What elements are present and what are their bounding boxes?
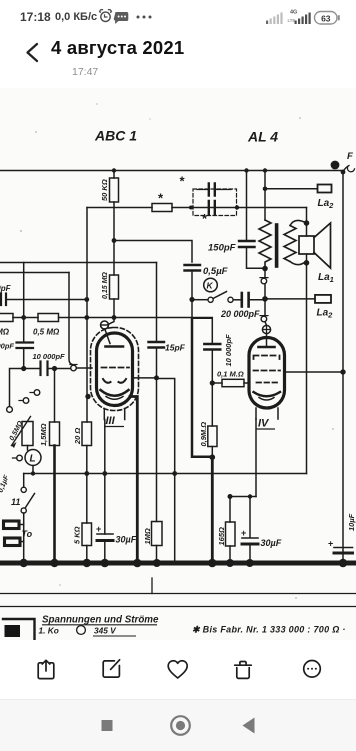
tube III shield (dashed) <box>91 328 139 411</box>
wire grid node to 1MΩ <box>156 378 158 522</box>
wire 0,9MΩ top lead <box>211 383 213 426</box>
edit icon <box>103 661 119 677</box>
tube IV envelope <box>249 338 285 409</box>
plug connector anode 1 <box>260 278 268 284</box>
svg-text:+: + <box>96 524 101 534</box>
header <box>0 38 60 68</box>
svg-text:11: 11 <box>11 497 20 507</box>
svg-text:30µF: 30µF <box>116 535 137 545</box>
junction heater/x105 <box>102 471 107 476</box>
trash icon <box>235 662 252 666</box>
svg-text:✱ Bis Fabr. Nr. 1 333 000 : 70: ✱ Bis Fabr. Nr. 1 333 000 : 700 Ω · <box>192 625 346 635</box>
scan speck <box>35 131 37 133</box>
junction bus 30µF1 <box>101 559 110 568</box>
navbar <box>0 699 356 751</box>
resistor 0,15 MΩ <box>110 275 119 299</box>
svg-text:L: L <box>30 454 36 465</box>
speaker La1 driver <box>299 236 314 254</box>
capacitor 10 000pF (coupling) <box>204 344 220 350</box>
junction bus cathode III <box>133 559 142 568</box>
trimmer capacitor upper <box>197 184 231 196</box>
underline table title <box>42 624 157 626</box>
node F antenna terminal <box>331 161 355 172</box>
junction AVC x24 <box>21 315 26 320</box>
tube III envelope <box>97 333 133 406</box>
junction bus 1M <box>153 559 161 567</box>
svg-text:ABC 1: ABC 1 <box>94 128 137 144</box>
wire tube III grid right <box>133 377 157 379</box>
capacitor 20000pF <box>242 293 249 307</box>
resistor 1 MΩ <box>152 522 163 546</box>
transformer secondary coil <box>284 226 296 262</box>
terminal To upper <box>4 521 20 529</box>
junction bus 10µF <box>339 559 348 568</box>
capacitor 150pF <box>239 241 255 247</box>
tube III heater arc inner <box>106 397 123 400</box>
wire cathode-chain vertical x=87 <box>86 208 88 423</box>
underline tube IV <box>257 428 276 430</box>
svg-text:5 ΚΩ: 5 ΚΩ <box>73 526 82 544</box>
svg-text:K: K <box>207 281 214 291</box>
wire 30µF(2) to bus <box>249 544 251 561</box>
wire switch node down <box>191 300 193 319</box>
junction bus To <box>20 559 28 567</box>
svg-text:F: F <box>347 151 353 162</box>
wire 1MΩ to bus <box>156 546 158 562</box>
wire 50k top lead <box>113 171 115 179</box>
junction switch node <box>189 297 194 302</box>
junction rail/150pF <box>244 168 248 172</box>
terminal To lower <box>5 538 21 546</box>
status bar <box>20 10 51 24</box>
tube III top-cap terminal <box>101 321 109 329</box>
junction rail/primary <box>263 168 267 172</box>
wire tap line y=272 <box>0 272 69 274</box>
wire elbow to tube III top cap <box>108 318 114 325</box>
toolbar <box>0 645 356 690</box>
junction antenna row 1 <box>189 206 193 210</box>
svg-text:AL 4: AL 4 <box>247 129 278 145</box>
scan speck <box>96 103 98 105</box>
tube IV anode lead <box>266 334 268 347</box>
tube IV grid 1 <box>254 356 280 360</box>
lamp La2 (lower) <box>315 295 331 303</box>
wire primary bottom to anode node <box>264 269 266 317</box>
junction bus 30µF2 <box>246 559 254 567</box>
wire HT top rail <box>0 170 343 172</box>
pin connector <box>7 407 13 413</box>
svg-text:150pF: 150pF <box>208 243 236 254</box>
junction secondary bottom <box>304 260 310 266</box>
battery pill <box>315 12 338 25</box>
wire 20Ω to 5kΩ <box>86 446 88 524</box>
tube III base pins <box>104 409 124 420</box>
wire junction to plug <box>55 368 71 370</box>
junction La2 feed <box>263 187 268 192</box>
svg-text:10 000pF: 10 000pF <box>224 334 233 367</box>
wire 0,9MΩ bottom lead <box>211 447 213 458</box>
wire cap to junction <box>48 368 55 370</box>
wire grid line y=317 <box>59 317 213 319</box>
transformer primary coil <box>259 220 271 268</box>
wire node elbow left <box>10 369 24 407</box>
wire switch to bus <box>23 513 25 561</box>
tube III anode lead <box>105 329 110 344</box>
wire tube III heater left down <box>104 420 106 535</box>
junction rail/50k <box>112 168 116 172</box>
junction 0,15M bottom <box>112 315 117 320</box>
resistor 0,9 MΩ <box>208 426 217 447</box>
switch K label circle <box>204 278 218 292</box>
wire antenna row right <box>172 207 307 209</box>
svg-text:5000pF: 5000pF <box>0 342 14 351</box>
wire antenna row left <box>87 207 152 209</box>
resistor 5 KΩ <box>82 523 92 546</box>
svg-text:4G: 4G <box>290 10 297 16</box>
resistor 20 Ω <box>82 422 92 446</box>
wire grid node right drop <box>157 379 175 562</box>
junction antenna row 2 <box>235 205 239 209</box>
tube IV top-cap terminal <box>262 325 270 333</box>
wire primary top feed <box>264 171 266 221</box>
capacitor 30µF (2) <box>242 538 258 544</box>
wire tube IV heater down <box>255 419 257 497</box>
wire grid cap to node <box>6 299 87 301</box>
schematic photo <box>0 88 356 640</box>
transformer core <box>275 225 279 266</box>
tube IV cathode arc <box>254 392 281 396</box>
wire 165Ω drop <box>229 497 231 523</box>
tube III heater arc <box>101 390 129 396</box>
wire speaker return drop <box>306 263 308 474</box>
junction IV right rail <box>340 369 345 374</box>
wire secondary bottom hook <box>290 262 304 265</box>
wire to tube IV top cap <box>265 322 267 325</box>
wire cap to switch node <box>191 271 193 300</box>
chat icon <box>114 12 129 24</box>
wire 150pF to primary bottom <box>247 247 266 268</box>
plug connector a <box>30 390 40 396</box>
junction secondary top <box>304 220 310 226</box>
svg-text:III: III <box>106 415 116 427</box>
capacitor 500pF (edge) <box>1 294 6 306</box>
table cell black <box>5 625 21 637</box>
junction coupling node <box>210 380 215 385</box>
speaker La1 cone <box>314 223 331 268</box>
junction bus x212 <box>208 559 217 568</box>
resistor * (antenna series) <box>152 204 172 212</box>
wire tube IV cathode to right rail <box>285 371 344 373</box>
wire thick to bus x=212 <box>211 457 214 561</box>
scan speck <box>149 118 151 120</box>
junction heater/lamp <box>31 471 35 475</box>
wire lamp to heater line <box>32 466 34 474</box>
junction anode node <box>262 296 268 302</box>
frame stub <box>151 578 153 594</box>
wire 165Ω to bus <box>229 546 231 561</box>
plug connector b <box>19 398 29 404</box>
svg-text:50 KΩ: 50 KΩ <box>100 179 109 201</box>
svg-text:To: To <box>22 529 33 539</box>
svg-text:20 Ω: 20 Ω <box>73 428 82 445</box>
wire secondary top hook <box>290 220 305 225</box>
junction primary bottom <box>262 266 268 272</box>
svg-text:1 ΜΩ: 1 ΜΩ <box>0 328 10 337</box>
underline tube III <box>104 426 124 428</box>
wire tube III cathode thick <box>130 397 137 562</box>
wire to pilot lamp La2 top <box>265 188 318 190</box>
tube III anode bar <box>106 345 124 348</box>
table border <box>3 619 35 640</box>
more icon <box>304 661 321 678</box>
capacitor 30µF (1) <box>97 534 113 541</box>
svg-text:0,1 Μ.Ω: 0,1 Μ.Ω <box>217 370 244 379</box>
svg-text:+: + <box>328 539 333 549</box>
capacitor 15pF <box>149 342 165 348</box>
svg-text:10µF: 10µF <box>347 513 356 531</box>
junction heater pocket <box>228 494 233 499</box>
svg-text:0,9Μ.Ω: 0,9Μ.Ω <box>199 422 208 447</box>
wire plug to tube III grid <box>76 367 92 369</box>
plug connector anode 2 <box>260 316 268 322</box>
wire tap vertical x=69 <box>69 273 72 365</box>
wire anode node to La2 lower <box>265 298 315 300</box>
scan speck <box>59 584 61 586</box>
trimmer block (dashed) <box>193 189 237 216</box>
dial lamp L <box>25 450 41 466</box>
junction grid node x54 <box>52 366 57 371</box>
junction bus 5k <box>83 559 91 567</box>
wire 30µF(2) drop <box>249 497 251 538</box>
wire divider drop x=54 <box>54 369 56 423</box>
wire AVC drop x=24 <box>23 263 25 343</box>
wire heater pocket <box>230 496 256 498</box>
wire 30µF(1) to bus <box>104 541 106 562</box>
junction bus 1,5M <box>50 559 58 567</box>
wire 15pF drop <box>156 263 158 342</box>
wire 10000pF to grid node <box>211 350 213 384</box>
capacitor 10 000pF (grid) <box>41 362 48 376</box>
junction heater/x87 <box>84 471 89 476</box>
lamp La2 (top) <box>318 185 332 193</box>
scan speck <box>299 117 301 119</box>
svg-text:LTE: LTE <box>288 18 296 23</box>
switch K contacts <box>195 292 241 303</box>
wire heater line y=473 <box>24 473 307 475</box>
wire right HT vertical <box>342 172 344 561</box>
wire 5kΩ to bus <box>86 546 88 562</box>
wire AVC line y=262 <box>0 262 157 264</box>
wire grid stopper leads <box>212 382 249 384</box>
wire thick drop x=192 <box>192 318 212 457</box>
resistor 1,5 MΩ <box>50 422 60 446</box>
resistor 0,5 MΩ <box>38 314 59 322</box>
wire pot to lamp <box>27 446 29 451</box>
alarm clock icon <box>99 10 112 22</box>
tube III grid dashes <box>102 367 130 369</box>
svg-text:30µF: 30µF <box>261 538 282 548</box>
scan speck <box>20 230 22 232</box>
capacitor 10000pF (left) <box>17 343 34 349</box>
wire 15pF to grid node <box>156 348 158 378</box>
scan speck <box>295 597 297 599</box>
switch 11 <box>21 487 34 513</box>
resistor 50 KΩ <box>110 178 119 202</box>
junction grid III right <box>154 375 159 380</box>
capacitor 10µF <box>334 548 353 554</box>
svg-text:500pF: 500pF <box>0 284 12 293</box>
share icon <box>38 663 54 679</box>
resistor 0,1 MΩ <box>222 379 244 386</box>
trimmer capacitor lower <box>209 201 215 214</box>
junction rail/right <box>341 170 346 175</box>
tube IV grid 2 <box>254 370 281 372</box>
svg-text:15pF: 15pF <box>165 343 186 353</box>
wire switch stub <box>23 474 25 488</box>
tube IV heater arc <box>259 398 274 401</box>
wire 0,15M bottom lead <box>113 299 115 318</box>
ground bus <box>0 561 356 566</box>
svg-text:63: 63 <box>321 13 331 23</box>
svg-text:0,5µF: 0,5µF <box>203 266 228 277</box>
junction heater/x174 <box>172 471 177 476</box>
wire speaker feeds <box>306 223 308 263</box>
capacitor 0,5µF <box>185 265 201 271</box>
svg-text:1. Ko: 1. Ko <box>39 626 59 636</box>
wire 50k to node <box>113 202 115 275</box>
tube III cathode hooks <box>103 379 126 383</box>
svg-text:0,5 ΜΩ: 0,5 ΜΩ <box>33 328 60 337</box>
svg-text:165Ω: 165Ω <box>217 527 226 546</box>
table circle symbol <box>77 626 86 635</box>
wire to coupling cap <box>24 368 40 370</box>
svg-text:0,15 ΜΩ: 0,15 ΜΩ <box>102 272 109 299</box>
ellipsis <box>137 16 152 19</box>
wire corner to transformer secondary <box>306 208 308 224</box>
junction screen row <box>112 238 117 243</box>
svg-text:IV: IV <box>258 418 270 430</box>
heart icon <box>168 661 187 678</box>
svg-text:10 000pF: 10 000pF <box>33 352 66 361</box>
wire terminal stubs <box>19 525 24 542</box>
junction bus 165Ω <box>226 559 234 567</box>
potentiometer 0,5 MΩ <box>12 417 34 449</box>
frame line 1 <box>0 593 356 595</box>
tube IV anode bar <box>259 346 275 349</box>
junction pocket cap <box>248 494 252 498</box>
resistor 1 MΩ (edge) <box>0 314 13 322</box>
wire cap to anode node <box>249 299 265 301</box>
signal bars 2 <box>295 13 311 25</box>
svg-text:20 000pF: 20 000pF <box>220 309 260 319</box>
wire resistor link <box>13 317 38 319</box>
wire screen row y=240 <box>114 241 192 263</box>
svg-text:Spannungen und Ströme: Spannungen und Ströme <box>42 615 159 626</box>
svg-text:1ΜΩ: 1ΜΩ <box>143 528 152 544</box>
scan speck <box>332 428 334 430</box>
tube IV grid 3 <box>257 382 278 384</box>
svg-text:345 V: 345 V <box>94 626 117 636</box>
junction grid node x24 <box>21 366 26 371</box>
tube IV base pins <box>256 408 278 419</box>
signal bars 1 <box>266 13 283 25</box>
wire 150pF drop <box>246 171 248 241</box>
wire to 10000pF <box>192 318 212 343</box>
svg-text:+: + <box>241 528 246 538</box>
resistor 165 Ω <box>226 522 236 546</box>
wire thick to bus <box>53 446 56 562</box>
junction shield ground <box>85 394 90 399</box>
junction 0,9M bottom <box>210 454 216 460</box>
frame line 2 <box>0 606 356 608</box>
svg-text:1,5ΜΩ: 1,5ΜΩ <box>39 423 48 446</box>
junction x87/grid cap <box>84 297 89 302</box>
wire cap to node <box>23 348 25 369</box>
junction x87/AVC <box>84 315 89 320</box>
plug connector pair <box>70 365 77 371</box>
pin connector L <box>13 455 23 461</box>
